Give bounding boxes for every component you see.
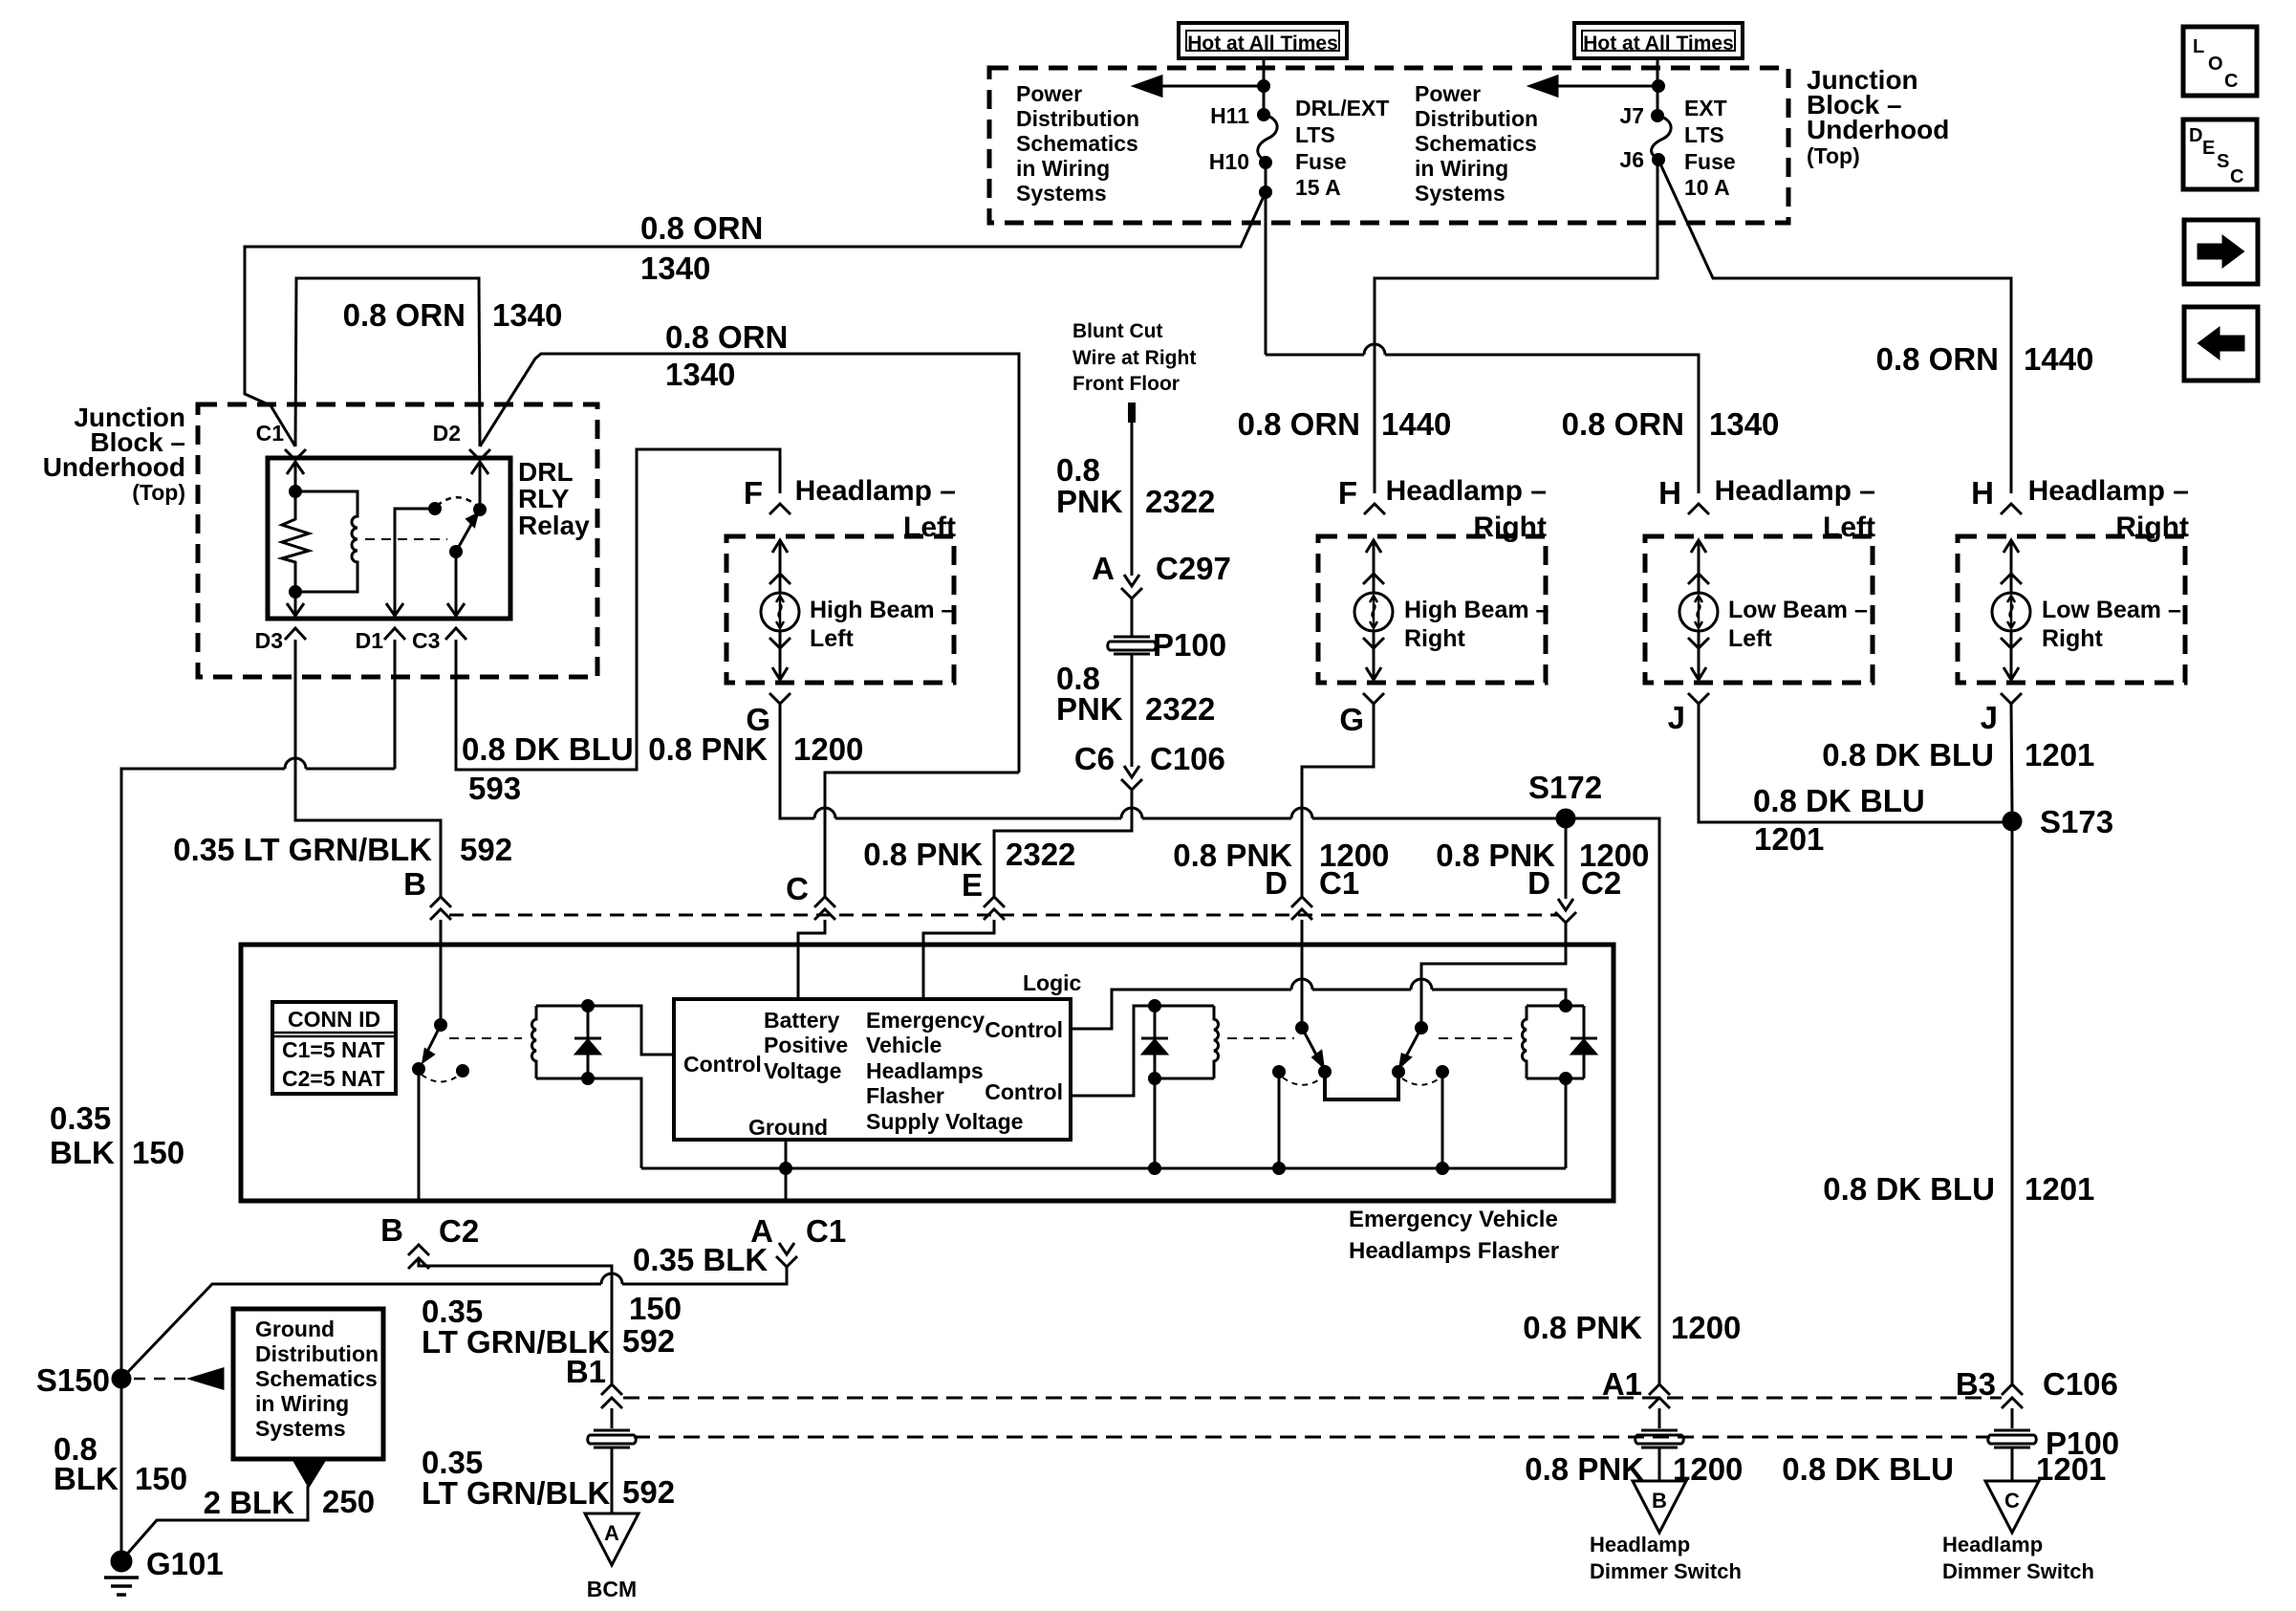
connector H chevron (low beam left) <box>1688 504 1709 514</box>
svg-text:Right: Right <box>2042 625 2104 652</box>
wire D1 to ground run <box>121 640 395 1379</box>
svg-text:O: O <box>2208 54 2223 75</box>
svg-text:1201: 1201 <box>2025 737 2094 773</box>
svg-text:0.8 PNK: 0.8 PNK <box>1525 1451 1644 1487</box>
label high beam left <box>810 597 955 652</box>
svg-text:A1: A1 <box>1602 1366 1642 1402</box>
svg-text:C297: C297 <box>1156 551 1231 586</box>
svg-text:0.35: 0.35 <box>50 1100 111 1136</box>
flasher coil 2 <box>1214 1006 1219 1078</box>
connector F chevron (headlamp left) <box>769 504 791 514</box>
connector C chevrons <box>814 897 835 920</box>
svg-text:Headlamp –: Headlamp – <box>795 475 956 507</box>
connector B1 chevrons <box>601 1384 622 1408</box>
label 0.35 LT GRN/BLK 592 (BCM lower) <box>422 1445 675 1511</box>
label C6 C106 <box>1074 741 1225 776</box>
connector J chevron (low beam left) <box>1688 693 1709 704</box>
wire S150 to G101 <box>120 1379 123 1561</box>
svg-text:592: 592 <box>622 1474 675 1510</box>
relay coil output arrow (D3) <box>287 592 304 616</box>
wire ground rail to A C1 output <box>785 1168 788 1201</box>
Hot at All Times box 2 <box>1574 23 1743 58</box>
label 0.8 PNK 2322 (lower) <box>1056 661 1215 727</box>
svg-text:D2: D2 <box>433 421 461 446</box>
flasher input switch <box>414 1020 446 1075</box>
label headlamp dimmer switch (right) <box>1942 1533 2094 1583</box>
svg-text:DRL/EXT: DRL/EXT <box>1295 96 1389 120</box>
flasher connector plane dashed line <box>449 914 1558 917</box>
svg-text:1200: 1200 <box>1671 1310 1741 1345</box>
svg-text:D: D <box>2189 125 2202 146</box>
feed arrow 2 <box>1530 76 1664 96</box>
svg-text:0.8 ORN: 0.8 ORN <box>665 319 788 355</box>
fuse EXT LTS 10A <box>1652 111 1672 165</box>
relay resistor <box>282 487 309 598</box>
svg-text:Relay: Relay <box>518 511 590 540</box>
svg-text:1340: 1340 <box>1709 406 1779 442</box>
svg-text:F: F <box>1338 475 1357 511</box>
splice S150 <box>113 1370 130 1387</box>
label Emergency Vehicle Headlamps Flasher <box>1349 1207 1559 1264</box>
flasher switch left (D C1) <box>1297 1023 1331 1078</box>
wire logic control upper routing <box>1071 979 1566 1029</box>
svg-text:Emergency: Emergency <box>866 1008 985 1033</box>
connector J chevron (low beam right) <box>2001 693 2022 704</box>
coil 3 rails <box>1527 1001 1584 1169</box>
svg-text:Power: Power <box>1016 81 1082 106</box>
svg-text:250: 250 <box>322 1484 375 1519</box>
svg-text:0.8 ORN: 0.8 ORN <box>343 297 466 333</box>
label 0.8 DK BLU 1201 (horizontal) <box>1753 783 1925 857</box>
svg-text:Wire at Right: Wire at Right <box>1072 347 1196 369</box>
svg-text:0.8 DK BLU: 0.8 DK BLU <box>1822 737 1994 773</box>
svg-text:Left: Left <box>903 512 956 543</box>
right switch throw dashed arc <box>1402 1078 1440 1085</box>
headlamp right low title <box>2028 475 2189 543</box>
fuse 1 value label <box>1295 96 1389 200</box>
svg-text:1201: 1201 <box>1754 821 1824 857</box>
DESC navigation box <box>2183 120 2257 189</box>
svg-text:Left: Left <box>810 625 855 652</box>
left switch throw dashed arc <box>1283 1078 1321 1085</box>
ground G101 <box>104 1552 139 1595</box>
connector C3 chevron <box>445 628 466 640</box>
CONN ID table <box>272 1002 396 1094</box>
svg-text:Schematics: Schematics <box>1016 131 1138 156</box>
label 0.8 ORN 1440 (low beam right) <box>1876 341 2094 377</box>
svg-text:Dimmer Switch: Dimmer Switch <box>1590 1559 1742 1583</box>
wire A C1 ground run to S150 <box>121 1267 787 1379</box>
label 0.8 PNK 1200 D C2 <box>1436 838 1649 901</box>
svg-text:LT GRN/BLK: LT GRN/BLK <box>422 1475 611 1511</box>
label low beam left <box>1728 597 1868 652</box>
wire from hot box 1 <box>1263 58 1266 115</box>
wire logic control lower routing <box>1071 1006 1155 1096</box>
P100 grommet (blunt wire) <box>1108 637 1157 654</box>
svg-text:Distribution: Distribution <box>1415 106 1538 131</box>
svg-text:A: A <box>604 1521 619 1545</box>
label 0.8 PNK 1200 (G left) <box>648 731 863 767</box>
svg-text:A: A <box>1092 551 1115 586</box>
svg-text:BLK: BLK <box>54 1461 119 1496</box>
P100 grommet (dimmer B wire) <box>1635 1430 1684 1448</box>
svg-text:in Wiring: in Wiring <box>1415 156 1508 181</box>
svg-text:0.35 BLK: 0.35 BLK <box>633 1242 768 1277</box>
P100 grommet (BCM wire) <box>588 1430 637 1448</box>
svg-text:Schematics: Schematics <box>255 1366 378 1391</box>
svg-text:0.8 DK BLU: 0.8 DK BLU <box>1823 1171 1995 1207</box>
P100 grommet (dimmer C wire) <box>1988 1430 2037 1448</box>
flasher coil 3 <box>1522 1006 1527 1078</box>
svg-text:Distribution: Distribution <box>255 1341 379 1366</box>
svg-text:H: H <box>1658 475 1681 511</box>
svg-text:C2: C2 <box>439 1213 479 1249</box>
svg-text:Underhood: Underhood <box>1807 115 1949 144</box>
wire logic ground pin <box>781 1140 791 1174</box>
label B C2 (flasher bottom) <box>380 1212 479 1249</box>
svg-text:1340: 1340 <box>665 357 735 392</box>
svg-text:Power: Power <box>1415 81 1481 106</box>
svg-text:J: J <box>1668 700 1685 735</box>
wire 0.8 PNK 2322 blunt cut <box>1131 423 1134 576</box>
svg-text:D1: D1 <box>356 628 384 653</box>
svg-text:C: C <box>2004 1489 2020 1513</box>
label A C297 <box>1092 551 1231 586</box>
dimmer switch triangle C <box>1985 1481 2039 1533</box>
connector H chevron (low beam right) <box>2001 504 2022 514</box>
label low beam right <box>2042 597 2181 652</box>
svg-text:Positive: Positive <box>764 1033 848 1057</box>
coil 2 rails <box>1155 1006 1214 1168</box>
svg-text:Control: Control <box>985 1079 1063 1104</box>
svg-text:592: 592 <box>460 832 512 867</box>
junction block (top) title <box>1807 65 1949 168</box>
label 0.8 ORN 1440 (high beam right) <box>1238 406 1452 442</box>
headlamp right (low beam) dashed box <box>1958 536 2185 683</box>
svg-text:S173: S173 <box>2040 804 2113 839</box>
svg-text:CONN ID: CONN ID <box>288 1007 380 1032</box>
svg-text:C2=5 NAT: C2=5 NAT <box>282 1066 385 1091</box>
wire fuse2 right branch to low beam right H <box>1658 160 2011 493</box>
svg-text:15 A: 15 A <box>1295 175 1341 200</box>
Hot at All Times box 1 <box>1179 23 1347 58</box>
svg-text:1201: 1201 <box>2036 1451 2106 1487</box>
svg-text:Headlamp: Headlamp <box>1590 1533 1690 1557</box>
svg-text:BLK: BLK <box>50 1135 115 1170</box>
svg-text:0.8 DK BLU: 0.8 DK BLU <box>462 731 634 767</box>
svg-text:J: J <box>1981 700 1998 735</box>
svg-text:H10: H10 <box>1209 149 1249 174</box>
wire B1 to P100 <box>611 1408 614 1428</box>
flasher switch open contact dot <box>458 1066 468 1077</box>
ground distribution text <box>255 1317 379 1441</box>
svg-text:D: D <box>1527 865 1550 901</box>
relay DRL RLY box <box>268 458 510 619</box>
junction block underhood (left) dashed box <box>198 404 597 677</box>
svg-text:0.8 ORN: 0.8 ORN <box>640 210 763 246</box>
junction block underhood (top) dashed box <box>989 68 1788 223</box>
svg-text:LTS: LTS <box>1684 122 1724 147</box>
relay coil <box>295 491 357 592</box>
diode 2 <box>1141 1001 1168 1084</box>
power distribution note 1 <box>1016 81 1139 206</box>
connector G chevron (headlamp left) <box>769 693 791 704</box>
logic box labels <box>683 1008 1063 1140</box>
coil 3 actuation dashed link <box>1439 1037 1512 1039</box>
svg-text:High Beam –: High Beam – <box>810 597 955 623</box>
relay C3 output wire <box>447 552 465 616</box>
connector C6 C106 <box>1121 766 1142 790</box>
relay switch NC contact <box>386 504 441 617</box>
connector D2 chevron <box>469 449 490 460</box>
junction block (left) title <box>43 403 185 505</box>
label 0.8 PNK 2322 (upper) <box>1056 452 1215 519</box>
svg-text:S: S <box>2217 151 2229 172</box>
connector B C2 chevrons <box>408 1245 429 1269</box>
headlamp right (high beam) dashed box <box>1318 536 1546 683</box>
splice S172 <box>1557 810 1574 827</box>
label 2 BLK 250 <box>204 1484 375 1520</box>
svg-text:150: 150 <box>132 1135 184 1170</box>
high beam right lamp <box>1354 540 1393 680</box>
bus wire to S172 <box>780 808 1659 1384</box>
svg-text:C6: C6 <box>1074 741 1115 776</box>
svg-text:D3: D3 <box>255 628 283 653</box>
wire P100 to dimmer triangle B <box>1658 1448 1661 1481</box>
label 0.8 PNK 2322 (E drop) <box>863 837 1075 872</box>
wire C drop to flasher <box>825 773 1019 897</box>
relay switch moving arm <box>451 514 478 557</box>
wire fuse1 output node <box>1261 163 1271 198</box>
connector A C1 <box>776 1243 797 1267</box>
coil 2 actuation dashed link <box>1227 1037 1294 1039</box>
ground rail junction dots <box>1150 1164 1160 1174</box>
power distribution note 2 <box>1415 81 1538 206</box>
label 0.35 BLK 150 (left edge) <box>50 1100 184 1170</box>
label 0.8 DK BLU 1201 (mid right) <box>1823 1171 2094 1207</box>
svg-text:B1: B1 <box>566 1354 606 1389</box>
left-arrow navigation box <box>2184 307 2258 381</box>
svg-text:G101: G101 <box>146 1546 224 1581</box>
svg-text:C: C <box>2224 71 2238 92</box>
headlamp right title <box>1386 475 1547 543</box>
wire D C1 into module <box>1301 920 1304 1028</box>
label 0.8 DK BLU 593 <box>462 731 634 806</box>
connector A1 chevrons <box>1649 1384 1670 1408</box>
wire A1 to P100 <box>1658 1408 1661 1428</box>
wire S172 down to D C2 <box>1565 818 1568 899</box>
headlamp left low title <box>1715 475 1875 543</box>
svg-text:Low Beam –: Low Beam – <box>1728 597 1868 623</box>
label 0.35 LT GRN/BLK 592 (B1 upper) <box>422 1294 675 1360</box>
svg-text:RLY: RLY <box>518 484 570 513</box>
svg-text:J6: J6 <box>1619 147 1644 172</box>
label B3 C106 <box>1956 1366 2118 1402</box>
label 0.8 DK BLU 1201 (B3 lower) <box>1782 1451 2106 1487</box>
svg-text:B: B <box>1652 1489 1667 1513</box>
svg-text:P100: P100 <box>1153 627 1226 663</box>
headlamp left title <box>795 475 956 543</box>
svg-text:B3: B3 <box>1956 1366 1996 1402</box>
wire 0.8 ORN 1340 from D2 up to horizontal <box>480 354 1019 773</box>
svg-text:S150: S150 <box>36 1362 110 1398</box>
svg-text:Headlamp –: Headlamp – <box>1386 475 1547 507</box>
svg-text:S172: S172 <box>1528 770 1602 805</box>
svg-text:C1: C1 <box>806 1213 846 1249</box>
label 0.8 DK BLU 1201 (right vertical) <box>1822 737 2094 773</box>
svg-text:Left: Left <box>1728 625 1773 652</box>
wire B C2 to B1 <box>419 1260 612 1384</box>
connector B3 chevrons <box>2002 1384 2023 1408</box>
wire 0.8 ORN 1340 to relay C1 <box>245 192 1266 446</box>
logic box <box>674 999 1071 1140</box>
connector G chevron (headlamp right) <box>1363 693 1384 704</box>
wire D3 to flasher B <box>295 640 441 897</box>
wire E into logic box <box>923 920 994 999</box>
svg-text:H11: H11 <box>1210 103 1249 128</box>
label 0.8 PNK 1200 (A1 upper) <box>1523 1310 1741 1345</box>
svg-text:2322: 2322 <box>1006 837 1075 872</box>
svg-text:Headlamp –: Headlamp – <box>2028 475 2189 507</box>
svg-text:C2: C2 <box>1581 865 1621 901</box>
wire B3 to P100 <box>2011 1408 2014 1428</box>
splice S173 <box>2004 813 2021 830</box>
svg-text:1440: 1440 <box>2024 341 2093 377</box>
wire G headlamp-right to D C1 <box>1302 704 1374 897</box>
svg-text:C3: C3 <box>412 628 440 653</box>
wire to P100 <box>1131 599 1134 636</box>
svg-text:Control: Control <box>683 1052 762 1077</box>
svg-text:Low Beam –: Low Beam – <box>2042 597 2181 623</box>
wire S173 down to B3 <box>2011 821 2014 1384</box>
svg-text:0.8 ORN: 0.8 ORN <box>1562 406 1684 442</box>
flasher switch actuation dashed link <box>449 1037 522 1039</box>
svg-text:Headlamp –: Headlamp – <box>1715 475 1875 507</box>
svg-text:0.8 PNK: 0.8 PNK <box>1523 1310 1642 1345</box>
flasher internal ground rail <box>641 1167 1566 1170</box>
svg-text:150: 150 <box>629 1291 682 1326</box>
svg-text:Logic: Logic <box>1023 970 1082 995</box>
wire 0.8 ORN 1340 relay D2 loop <box>295 278 480 446</box>
wire 0.8 ORN 1340 horizontal to low beam left <box>1266 344 1699 493</box>
LOC navigation box <box>2183 27 2257 96</box>
svg-text:C106: C106 <box>2043 1366 2118 1402</box>
svg-text:PNK: PNK <box>1056 691 1123 727</box>
wire from hot box 2 <box>1657 58 1659 116</box>
fuse DRL/EXT LTS 15A <box>1258 110 1277 168</box>
wire B into module <box>440 920 443 1025</box>
wire J low-beam-right to S173 <box>2011 704 2012 813</box>
flasher switch right (D C2) <box>1394 1023 1427 1078</box>
svg-text:C: C <box>2230 166 2243 187</box>
low beam right lamp <box>1992 540 2030 680</box>
svg-text:0.8 DK BLU: 0.8 DK BLU <box>1753 783 1925 818</box>
diode 3 <box>1570 1006 1597 1078</box>
C106 connector plane dashed line <box>623 1397 2002 1400</box>
svg-text:C1: C1 <box>1319 865 1359 901</box>
svg-text:Underhood: Underhood <box>43 452 185 482</box>
svg-text:Headlamp: Headlamp <box>1942 1533 2043 1557</box>
diode 1 <box>574 1001 601 1084</box>
svg-text:Distribution: Distribution <box>1016 106 1139 131</box>
svg-text:Voltage: Voltage <box>764 1058 841 1083</box>
svg-text:(Top): (Top) <box>1807 143 1860 168</box>
low beam left lamp <box>1679 540 1718 680</box>
svg-text:Headlamps: Headlamps <box>866 1058 984 1083</box>
connector D3 chevron <box>285 628 306 640</box>
connector C1 chevron <box>285 449 306 460</box>
svg-text:Left: Left <box>1823 512 1875 543</box>
connector D1 chevron <box>384 628 405 640</box>
svg-text:C1: C1 <box>256 421 285 446</box>
P100 plane dashed line <box>634 1436 1990 1439</box>
dimmer switch triangle B <box>1633 1481 1686 1533</box>
svg-text:2322: 2322 <box>1145 691 1215 727</box>
svg-text:Blunt Cut: Blunt Cut <box>1072 320 1162 342</box>
svg-text:Vehicle: Vehicle <box>866 1033 942 1057</box>
svg-text:Ground: Ground <box>255 1317 335 1341</box>
svg-text:in Wiring: in Wiring <box>1016 156 1110 181</box>
svg-text:Battery: Battery <box>764 1008 839 1033</box>
svg-text:Ground: Ground <box>748 1115 828 1140</box>
label 0.8 PNK 1200 D C1 <box>1173 838 1389 901</box>
relay switch common pin arrow (D2 side) <box>471 462 488 515</box>
svg-text:Flasher: Flasher <box>866 1083 944 1108</box>
svg-text:C1=5 NAT: C1=5 NAT <box>282 1037 385 1062</box>
svg-text:L: L <box>2193 36 2204 57</box>
label A C1 (flasher bottom) <box>750 1213 846 1249</box>
wire switch to B C2 output <box>418 1069 421 1201</box>
label high beam right <box>1404 597 1549 652</box>
svg-text:1340: 1340 <box>640 250 710 286</box>
wire P100 to BCM triangle <box>611 1448 614 1513</box>
connector A C297 <box>1121 575 1142 599</box>
connector F chevron (headlamp right) <box>1364 504 1385 514</box>
wire C106 down to E jog <box>994 790 1132 897</box>
fuse 2 value label <box>1684 96 1736 200</box>
svg-text:0.8: 0.8 <box>1056 452 1100 488</box>
svg-text:Right: Right <box>2115 512 2189 543</box>
connector B chevrons (flasher top) <box>430 897 451 920</box>
wire fuse1 down to y371 <box>1265 192 1267 355</box>
svg-text:0.8 PNK: 0.8 PNK <box>648 731 768 767</box>
left stationary contact post <box>1274 1067 1285 1174</box>
high beam left lamp <box>761 540 799 680</box>
flasher module box <box>241 945 1614 1201</box>
svg-text:Right: Right <box>1404 625 1466 652</box>
label 0.8 PNK 1200 (A1 lower) <box>1525 1451 1743 1487</box>
svg-text:H: H <box>1971 475 1994 511</box>
connector E chevrons <box>984 897 1005 920</box>
relay switch throw dashed arc <box>437 497 478 507</box>
svg-text:1201: 1201 <box>2025 1171 2094 1207</box>
coil 1 rails <box>536 1006 674 1168</box>
svg-text:Hot at All Times: Hot at All Times <box>1187 33 1338 54</box>
svg-text:Control: Control <box>985 1017 1063 1042</box>
svg-text:EXT: EXT <box>1684 96 1727 120</box>
headlamp left (high beam) dashed box <box>726 536 954 683</box>
svg-text:(Top): (Top) <box>132 480 185 505</box>
svg-text:Headlamps Flasher: Headlamps Flasher <box>1349 1238 1559 1264</box>
svg-text:Systems: Systems <box>1016 181 1107 206</box>
wire P100 to dimmer triangle C <box>2011 1448 2014 1481</box>
svg-text:B: B <box>403 866 426 902</box>
svg-text:1200: 1200 <box>793 731 863 767</box>
svg-text:0.8 ORN: 0.8 ORN <box>1238 406 1360 442</box>
wire G headlamp-left down <box>779 704 782 808</box>
S150 reference dashed arrow <box>134 1369 223 1388</box>
svg-text:F: F <box>744 475 763 511</box>
